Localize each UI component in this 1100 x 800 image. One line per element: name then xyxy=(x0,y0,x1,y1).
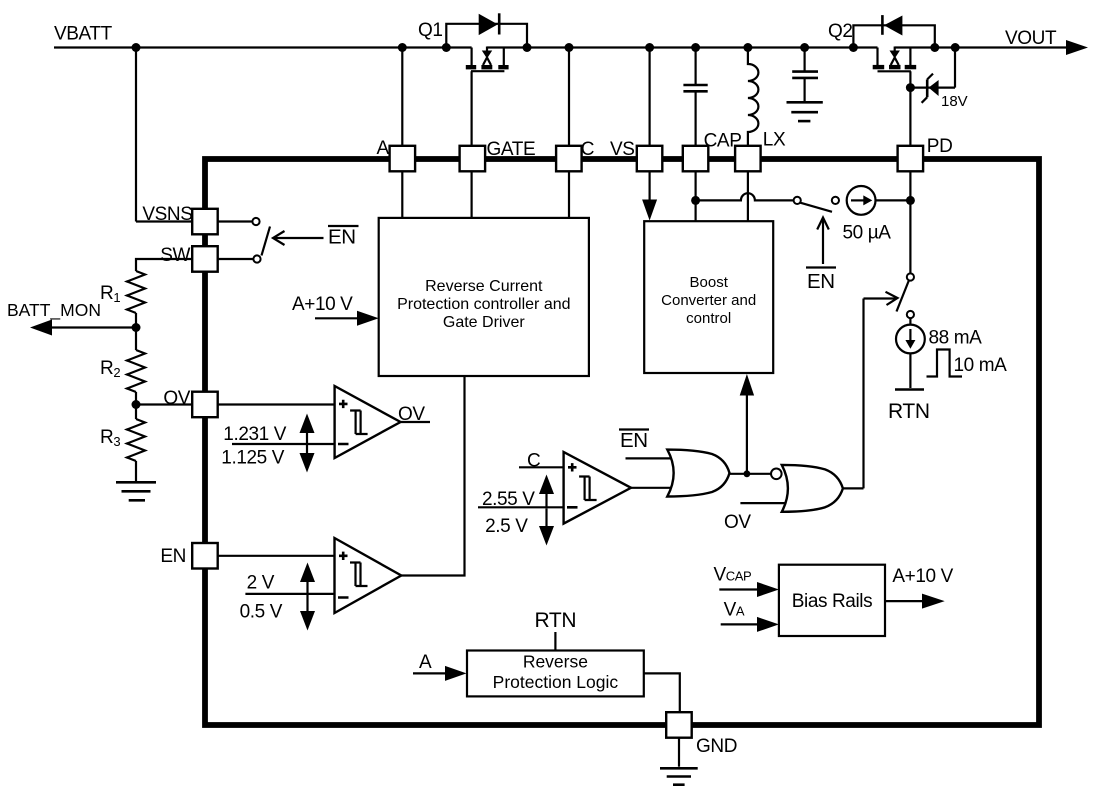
svg-text:VOUT: VOUT xyxy=(1005,28,1057,49)
block Bias Rails xyxy=(779,565,885,636)
svg-text:Boost: Boost xyxy=(690,274,729,291)
wire VS pin to rail xyxy=(648,48,650,147)
current source 88mA xyxy=(909,318,911,325)
wire SW to R1 xyxy=(136,259,192,271)
IC boundary box xyxy=(205,159,1039,725)
switch 50uA (open) xyxy=(794,197,801,204)
block Reverse Current Protection controller and Gate Driver xyxy=(379,218,589,376)
comparator EN (U2) xyxy=(218,376,465,631)
svg-text:VA: VA xyxy=(724,600,745,621)
capacitor to ground (output cap) xyxy=(792,48,818,103)
EN arrow to 50uA switch xyxy=(822,219,824,264)
svg-text:Reverse: Reverse xyxy=(523,652,588,672)
capacitor on CAP branch xyxy=(683,48,707,147)
wire G2 output xyxy=(843,487,864,489)
svg-text:1.231 V: 1.231 V xyxy=(223,424,286,445)
svg-text:GND: GND xyxy=(696,736,737,757)
node dot G1 output xyxy=(744,470,751,477)
pin VS xyxy=(637,146,663,172)
node dot on CAP branch xyxy=(691,196,700,205)
pin PD xyxy=(898,146,924,172)
ground symbol at GND pin xyxy=(660,738,698,785)
ground symbol below R3 xyxy=(116,461,156,500)
svg-text:A: A xyxy=(377,138,390,159)
wire VS pin arrow into boost block xyxy=(648,171,650,201)
transistor Q2 body diode xyxy=(884,16,903,36)
wire 88mA to RTN bar xyxy=(909,353,911,388)
svg-text:10 mA: 10 mA xyxy=(954,355,1008,376)
svg-text:VBATT: VBATT xyxy=(54,24,113,45)
pin OV xyxy=(192,392,218,418)
svg-text:A+10 V: A+10 V xyxy=(292,294,353,315)
wire R1 to R2 xyxy=(135,313,137,350)
svg-text:Q1: Q1 xyxy=(418,20,443,41)
transistor Q2 body diode branch wire xyxy=(853,25,934,47)
svg-text:18V: 18V xyxy=(941,93,968,110)
svg-text:A: A xyxy=(419,652,432,673)
svg-text:Bias Rails: Bias Rails xyxy=(792,591,872,612)
svg-text:PD: PD xyxy=(927,136,953,157)
svg-text:2.55 V: 2.55 V xyxy=(482,489,535,510)
resistor R2 xyxy=(127,350,145,392)
pin LX xyxy=(735,146,761,172)
resistor R1 xyxy=(127,271,145,313)
wire GATE pin to block xyxy=(471,171,473,218)
pin VSNS xyxy=(192,209,218,235)
pin GND xyxy=(666,712,692,738)
wire G1 output xyxy=(730,473,771,475)
svg-text:LX: LX xyxy=(763,130,786,151)
wire LX pin down into boost block xyxy=(747,171,749,221)
svg-text:Converter and: Converter and xyxy=(661,292,756,309)
wire main top rail segment 1 xyxy=(54,46,472,48)
svg-text:1.125 V: 1.125 V xyxy=(221,448,284,469)
wire CAP pin down into boost block xyxy=(694,171,696,221)
svg-text:A+10 V: A+10 V xyxy=(892,566,953,587)
wire main top rail segment 2 xyxy=(487,46,878,48)
svg-text:Protection controller and: Protection controller and xyxy=(397,296,570,313)
wire EN into or gate xyxy=(626,457,672,459)
svg-text:Q2: Q2 xyxy=(828,21,853,42)
svg-text:RTN: RTN xyxy=(888,400,930,423)
transistor Q1 mosfet xyxy=(466,47,509,147)
svg-text:0.5 V: 0.5 V xyxy=(240,602,283,623)
wire VBATT branch down to VSNS xyxy=(135,48,137,222)
svg-text:EN: EN xyxy=(160,546,186,567)
wire VOUT arrowhead xyxy=(1066,40,1088,55)
svg-text:Gate Driver: Gate Driver xyxy=(443,314,525,331)
block Reverse Protection Logic xyxy=(467,651,644,697)
wire A pin to rail xyxy=(401,48,403,147)
transistor Q1 body diode branch wire xyxy=(446,24,527,48)
wire to VSNS pin xyxy=(136,220,192,222)
svg-text:2 V: 2 V xyxy=(247,573,275,594)
pin CAP xyxy=(683,146,709,172)
svg-text:Protection Logic: Protection Logic xyxy=(493,672,619,692)
wire OV into nor gate xyxy=(740,502,785,504)
svg-text:GATE: GATE xyxy=(487,139,536,160)
svg-text:OV: OV xyxy=(724,512,751,533)
svg-text:88 mA: 88 mA xyxy=(929,328,983,349)
pin C xyxy=(556,146,582,172)
node dot Q2 gate/PD xyxy=(906,83,915,92)
pin SW xyxy=(192,246,218,272)
switch PD (open) xyxy=(907,273,914,280)
svg-text:OV: OV xyxy=(163,388,190,409)
svg-text:Reverse Current: Reverse Current xyxy=(425,278,543,295)
junction dots on top rail xyxy=(132,43,960,52)
pin GATE xyxy=(460,146,486,172)
arrow from NOR output to PD switch xyxy=(864,297,897,299)
node dot on PD line xyxy=(906,196,915,205)
comparator OV (U1) xyxy=(218,386,430,473)
wire logic block to GND pin xyxy=(644,673,680,712)
nor gate G2 xyxy=(782,465,843,512)
pin EN xyxy=(192,543,218,569)
wire C pin to rail xyxy=(568,48,570,147)
inductor on LX branch xyxy=(748,48,759,147)
current source 50uA xyxy=(847,186,876,215)
wire up to boost block with arrow xyxy=(746,395,748,474)
ground symbol for output cap xyxy=(787,102,823,121)
wire 50uA to PD line xyxy=(876,199,911,201)
wire A pin to block xyxy=(401,171,403,218)
switch EN at VSNS/SW pins xyxy=(218,220,253,222)
wire PD pin down xyxy=(909,171,911,273)
svg-text:C: C xyxy=(581,139,594,160)
svg-text:VSNS: VSNS xyxy=(142,204,192,225)
or gate G1 xyxy=(667,450,729,497)
svg-text:VS: VS xyxy=(610,139,635,160)
svg-text:EN: EN xyxy=(328,226,356,249)
transistor Q1 body diode xyxy=(479,14,498,35)
svg-text:SW: SW xyxy=(160,245,190,266)
pin A xyxy=(390,146,416,172)
wire C pin to block xyxy=(568,171,570,218)
svg-text:50 µA: 50 µA xyxy=(843,223,892,244)
wire main top rail segment 3 xyxy=(895,46,1066,48)
node dot BATT_MON xyxy=(132,323,141,332)
svg-text:BATT_MON: BATT_MON xyxy=(7,300,101,321)
wire NOR output vertical xyxy=(862,299,864,489)
svg-text:EN: EN xyxy=(620,429,648,452)
block Boost Converter and control xyxy=(644,221,773,373)
svg-text:2.5 V: 2.5 V xyxy=(485,516,528,537)
svg-text:EN: EN xyxy=(807,270,835,293)
wire R2 to R3 and OV tap xyxy=(135,392,137,419)
resistor R3 xyxy=(127,419,145,461)
nor gate G2 input bubble xyxy=(771,469,782,480)
wire 50uA branch with hop over LX xyxy=(696,193,794,200)
svg-text:control: control xyxy=(686,310,731,327)
pulse waveform 10mA xyxy=(927,350,963,377)
svg-text:VCAP: VCAP xyxy=(714,565,752,586)
zener diode 18V branch xyxy=(910,48,955,103)
svg-text:RTN: RTN xyxy=(535,609,577,632)
wire PD node down to PD pin xyxy=(909,88,911,146)
comparator C (U3) xyxy=(478,451,671,546)
svg-text:OV: OV xyxy=(398,404,425,425)
transistor Q2 mosfet xyxy=(873,47,917,88)
arrow EN to switch xyxy=(274,237,324,239)
